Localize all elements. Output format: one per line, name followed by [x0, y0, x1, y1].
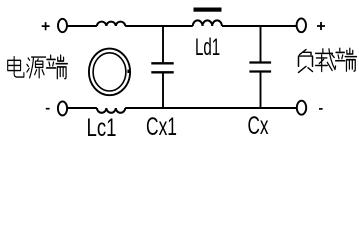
terminal load +	[297, 18, 306, 32]
terminal load -	[297, 101, 306, 115]
svg-text:Ld1: Ld1	[195, 34, 220, 61]
wire top-right	[222, 25, 297, 27]
wire bottom-right	[125, 107, 297, 109]
wire top-middle	[125, 25, 193, 27]
svg-text:Cx: Cx	[248, 112, 269, 140]
node + (load positive sign)	[317, 22, 325, 30]
wire Cx lower lead	[260, 73, 262, 109]
terminal source -	[58, 101, 67, 115]
inductor Ld1	[193, 20, 222, 26]
label 电源端 (source side)	[8, 55, 68, 78]
wire Cx1 upper lead	[162, 26, 164, 62]
capacitor Cx	[249, 63, 271, 72]
capacitor Cx1	[151, 63, 173, 72]
wire bottom-left	[67, 107, 97, 109]
toroid core (common-mode choke ring)	[89, 49, 130, 96]
wire Cx1 lower lead	[162, 73, 164, 108]
svg-text:Lc1: Lc1	[87, 114, 117, 142]
terminal source +	[58, 19, 67, 32]
label 负载端 (load side)	[299, 48, 357, 72]
svg-text:Cx1: Cx1	[146, 113, 177, 141]
node - (load negative sign)	[319, 108, 323, 110]
wire Cx upper lead	[260, 26, 262, 62]
wire top-left	[67, 25, 97, 27]
node + (source positive sign)	[42, 22, 50, 30]
inductor Lc1 winding (bottom, common-mode choke)	[97, 108, 125, 113]
inductor winding (top, common-mode choke)	[97, 22, 125, 26]
node - (source negative sign)	[46, 108, 50, 110]
inductor Ld1 core bar	[194, 8, 222, 12]
